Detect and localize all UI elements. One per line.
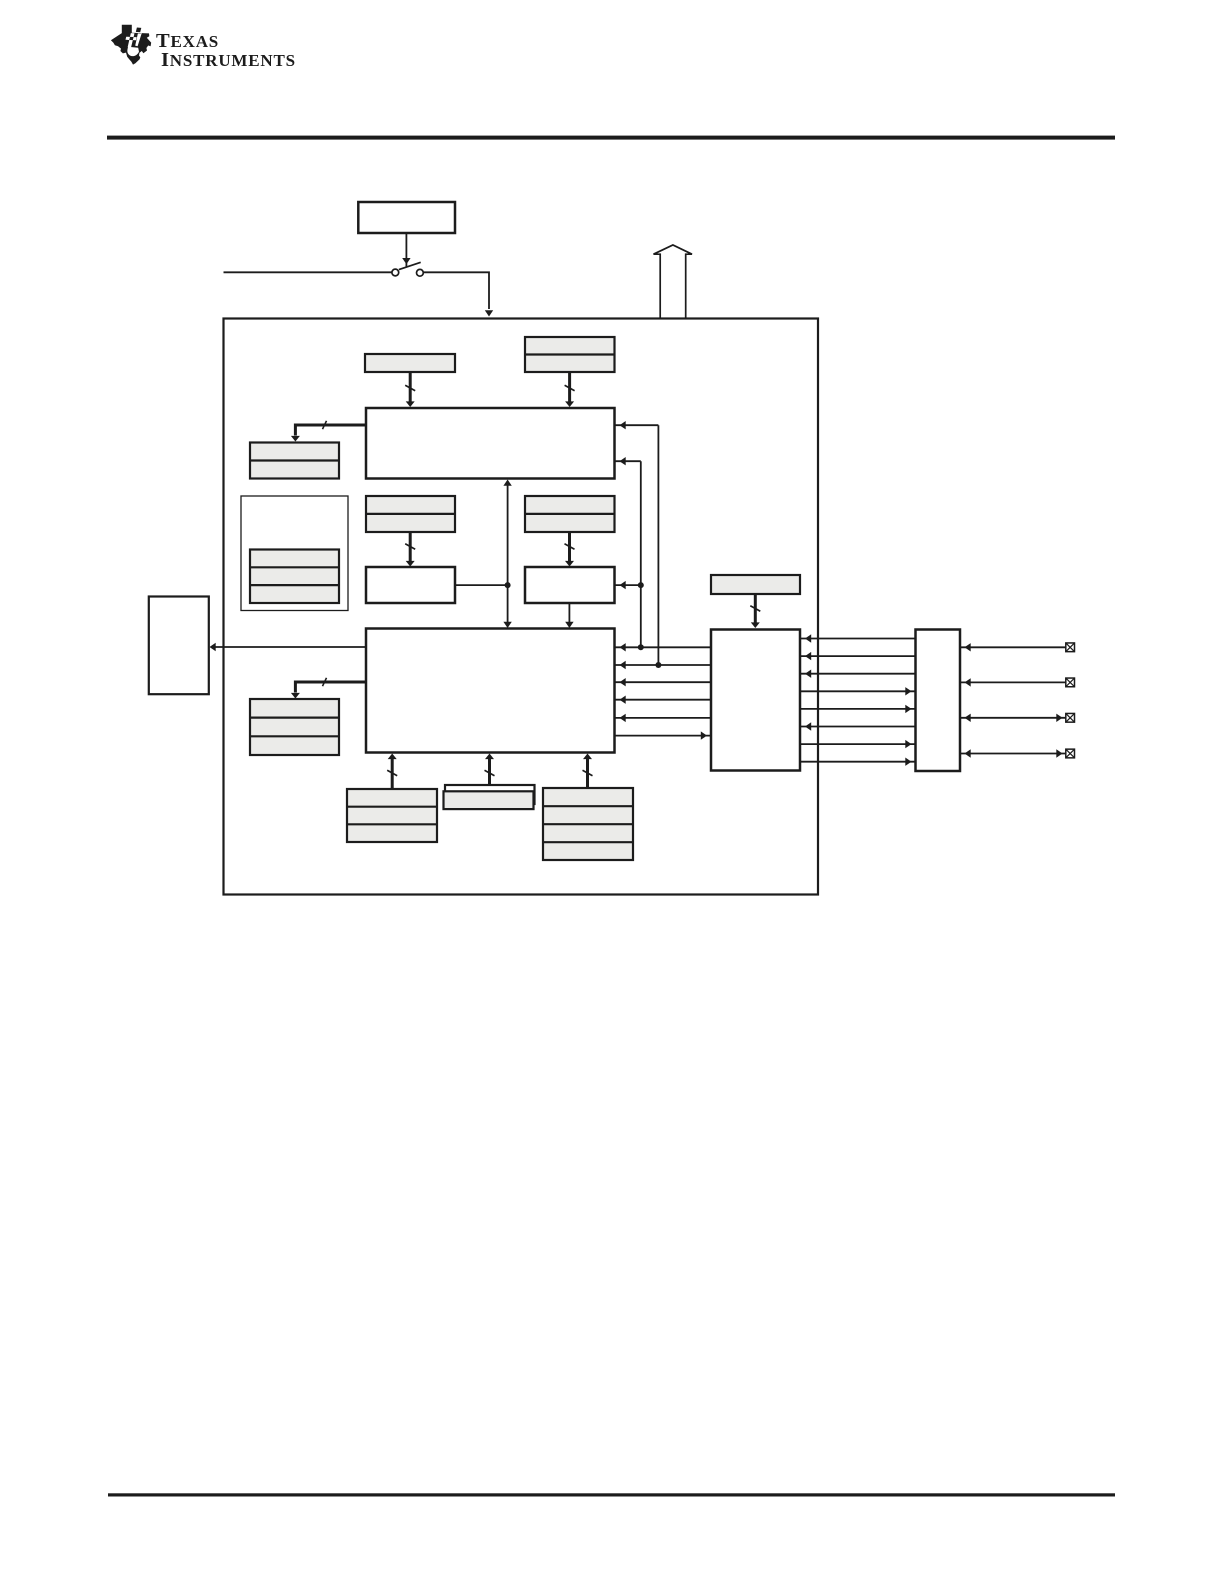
- wire: peripheral to CPU row 4: [615, 696, 712, 704]
- wire: pad driver to peripheral row 2: [800, 652, 916, 660]
- wire: crystal down to switch: [402, 234, 410, 267]
- wire: pad 2 to pad-driver: [960, 678, 1066, 686]
- box: shaded label (three rows) inside container: [250, 550, 339, 604]
- wire: CPU to peripheral row 6: [615, 731, 712, 739]
- wire: peripheral to pad driver row 4: [800, 687, 916, 695]
- junction: flash wire on MAB trunk: [505, 582, 511, 588]
- wire: peripheral to pad driver row 8: [800, 758, 916, 766]
- wire: peripheral to CPU row 5: [615, 714, 712, 722]
- box: RAM block: [525, 567, 615, 603]
- pad symbol 1 (crossed square): [1066, 643, 1075, 652]
- box: pad driver block: [916, 630, 961, 772]
- wire: peripheral to CPU row 1: [615, 643, 712, 651]
- bus arrow: clock block to left shaded box: [291, 421, 366, 442]
- switch contact left: [392, 269, 399, 276]
- wire: pad 4 to pad-driver: [960, 749, 1066, 757]
- box: CPU block: [366, 629, 615, 753]
- bus arrow: into flash block: [405, 532, 415, 567]
- wire: switch left lead: [224, 271, 392, 273]
- box: shaded label above peripheral block: [711, 575, 800, 594]
- box: clock system block: [366, 408, 615, 479]
- power supply block arrow: [654, 245, 693, 318]
- box: external crystal (top): [358, 202, 455, 233]
- svg-text:INSTRUMENTS: INSTRUMENTS: [161, 49, 296, 71]
- wire: pad driver to peripheral row 1: [800, 634, 916, 642]
- trunk wire V2 with branch to clock: [615, 421, 662, 668]
- wire: flash block to MAB trunk: [455, 584, 506, 586]
- wire: RAM block down to CPU: [565, 603, 573, 628]
- bus arrow: into RAM block: [565, 532, 575, 567]
- bus arrow: into clock block (left): [405, 372, 415, 407]
- switch contact right: [417, 269, 424, 276]
- bus arrow: into peripheral block: [750, 594, 760, 628]
- box: flash/ROM block: [366, 567, 455, 603]
- wire: pad 1 to pad-driver: [960, 643, 1066, 651]
- wire: switch to device top: [424, 272, 494, 316]
- wire: pad driver to peripheral row 6: [800, 722, 916, 730]
- box: shaded label (two rows) above clock block: [525, 337, 615, 372]
- MAB trunk vertical double-arrow: [503, 480, 511, 629]
- pad symbol 2 (crossed square): [1066, 678, 1075, 687]
- box: left external block (JTAG): [149, 597, 209, 695]
- bus arrow: bottom-left box up into CPU: [387, 754, 397, 790]
- wire: peripheral to pad driver row 5: [800, 705, 916, 713]
- pad symbol 3 (crossed square): [1066, 713, 1075, 722]
- box: shaded label (single row) above clock block: [365, 354, 455, 372]
- trunk wire V1 with branches to clock and RAM: [615, 457, 644, 650]
- switch lever: [399, 262, 421, 269]
- box: shaded label (three rows) bottom-left: [347, 789, 437, 842]
- wire: peripheral to CPU row 2: [615, 661, 712, 669]
- box: shaded label (two rows) above RAM block: [525, 496, 615, 532]
- box: shaded label (two rows) left of clock: [250, 443, 339, 479]
- box: shaded label (two rows) above flash block: [366, 496, 455, 532]
- wire: CPU to left external box: [210, 643, 367, 651]
- box: stacked thin pair (watchdog) back layer: [445, 785, 535, 804]
- container rectangle (emulation group): [241, 496, 348, 611]
- TI logo Texas-map bug: [111, 25, 151, 65]
- wire: pad driver to peripheral row 3: [800, 670, 916, 678]
- box: shaded label (four rows) bottom-right: [543, 788, 633, 860]
- box: shaded label (three rows) lower-left: [250, 699, 339, 755]
- bus arrow: into clock block (right): [565, 372, 575, 407]
- pad symbol 4 (crossed square): [1066, 749, 1075, 758]
- bus arrow: bottom-right box up into CPU: [583, 754, 593, 789]
- bus arrow: CPU to lower-left shaded box: [291, 678, 366, 699]
- box: stacked thin pair (watchdog) front layer: [444, 791, 534, 809]
- wire: pad 3 to pad-driver: [960, 714, 1066, 722]
- wire: peripheral to CPU row 3: [615, 678, 712, 686]
- header rule: [107, 136, 1115, 140]
- bus arrow: watchdog up into CPU: [485, 754, 495, 786]
- outer device boundary box: [224, 319, 819, 895]
- box: peripheral block: [711, 630, 800, 771]
- footer rule: [108, 1493, 1115, 1496]
- wire: peripheral to pad driver row 7: [800, 740, 916, 748]
